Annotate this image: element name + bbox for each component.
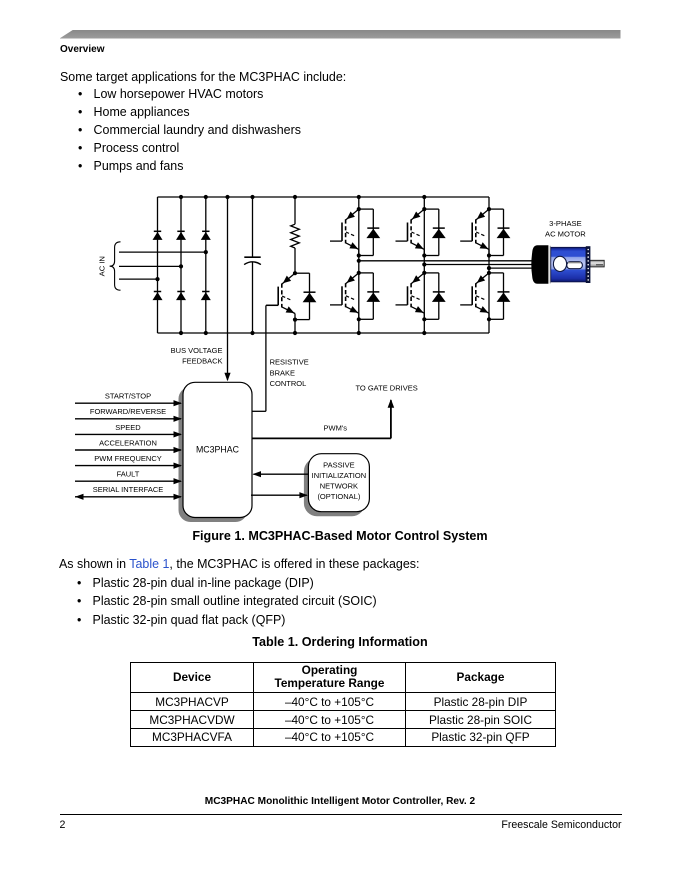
wire: ACCELERATION input (75, 438, 182, 453)
paragraph 2 (59, 557, 419, 571)
svg-text:BUS VOLTAGE: BUS VOLTAGE (171, 346, 223, 355)
node: inverter leg 2 bottom bus (422, 331, 426, 335)
wire: rectifier leg 1 (157, 197, 159, 333)
node: leg2 top bus junction (179, 195, 183, 199)
wire: brake emitter to DC- bus (294, 320, 296, 333)
transistor Q1 (high side) (330, 209, 359, 255)
svg-text:(OPTIONAL): (OPTIONAL) (317, 492, 360, 501)
svg-text:AC MOTOR: AC MOTOR (545, 229, 586, 238)
paragraph 1 (60, 70, 346, 84)
node: leg3 top bus junction (204, 195, 208, 199)
label: RESISTIVE BRAKE CONTROL (270, 358, 309, 388)
bullet list 2 (77, 574, 377, 630)
wire: PWM FREQUENCY input (75, 454, 182, 469)
wire: rectifier leg 2 (180, 197, 182, 333)
wire: FORWARD/REVERSE input (75, 407, 182, 422)
svg-text:PWM's: PWM's (324, 424, 348, 433)
wire: motor phase 2 (424, 264, 536, 266)
transistor Q6 (low side) (460, 273, 489, 319)
wire: AC phase input 1 (119, 251, 206, 253)
figure caption (0, 529, 680, 543)
bullet list 1 (78, 85, 301, 175)
capacitor C1 (DC bus) (244, 197, 261, 333)
label: 3-PHASE AC MOTOR (545, 219, 586, 238)
svg-text:RESISTIVE: RESISTIVE (270, 358, 309, 367)
svg-text:CONTROL: CONTROL (270, 379, 307, 388)
svg-text:PWM FREQUENCY: PWM FREQUENCY (94, 454, 162, 463)
label: BUS VOLTAGE FEEDBACK (171, 346, 223, 366)
node: emitter of Q2 (low side) (357, 317, 361, 321)
wire: START/STOP input (75, 392, 182, 407)
node: inverter leg 2 top bus (422, 195, 426, 199)
freewheel diode of Q4 (low side) (424, 273, 445, 319)
node: emitter of Q1 (high side) (357, 253, 361, 257)
node: emitter of Q4 (low side) (422, 317, 426, 321)
diode D2 (bridge lower) (153, 292, 163, 301)
footer title (0, 796, 680, 807)
freewheel diode of Q2 (low side) (359, 273, 380, 319)
node: capacitor bottom (250, 331, 254, 335)
top gray banner (60, 30, 621, 39)
svg-text:FEEDBACK: FEEDBACK (182, 357, 222, 366)
node: emitter of Q3 (high side) (422, 253, 426, 257)
node: resistor top on DC+ bus (293, 195, 297, 199)
wire: AC phase input 2 (119, 265, 181, 267)
svg-text:FAULT: FAULT (117, 470, 140, 479)
node: phase 1 tap (357, 259, 361, 263)
wire: passive network to MC3PHAC (253, 471, 309, 477)
3-phase AC motor M1 (531, 245, 604, 283)
node: feedback to DC+ bus (225, 195, 229, 199)
diode D6 (bridge lower) (201, 292, 211, 301)
svg-text:PASSIVE: PASSIVE (323, 461, 355, 470)
diode D5 (bridge upper) (201, 231, 211, 240)
wire: inverter leg 1 vertical (358, 197, 360, 333)
freewheel diode of Q3 (high side) (424, 209, 445, 255)
wire: DC- bottom bus (158, 332, 490, 334)
wire: motor phase 3 (489, 267, 536, 269)
node: collector of Q5 (high side) (487, 207, 491, 211)
node: AC phase 2 junction (179, 264, 183, 268)
node: phase 3 tap (487, 266, 491, 270)
wire: PWM's to gate drives (251, 399, 394, 438)
table caption (0, 635, 680, 649)
ordering table (130, 662, 556, 747)
op-amp substitute: MC3PHAC controller block (179, 382, 253, 522)
diode D4 (bridge lower) (176, 292, 186, 301)
svg-text:BRAKE: BRAKE (270, 368, 295, 377)
svg-text:ACCELERATION: ACCELERATION (99, 438, 157, 447)
wire: inverter leg 2 vertical (423, 197, 425, 333)
wire: AC phase input 3 (119, 278, 158, 280)
freewheel diode of Q5 (high side) (489, 209, 510, 255)
svg-text:SERIAL INTERFACE: SERIAL INTERFACE (93, 485, 164, 494)
wire: SPEED input (75, 423, 182, 438)
node: inverter leg 1 top bus (357, 195, 361, 199)
node: AC phase 1 junction (204, 250, 208, 254)
svg-text:SPEED: SPEED (115, 423, 141, 432)
node: emitter of Q5 (high side) (487, 253, 491, 257)
section heading (60, 44, 104, 55)
node: collector of Q4 (low side) (422, 271, 426, 275)
wire: bus voltage feedback (224, 197, 230, 381)
node: phase 2 tap (422, 262, 426, 266)
svg-text:INITIALIZATION: INITIALIZATION (312, 471, 366, 480)
node: leg2 bottom bus junction (179, 331, 183, 335)
wire: inverter leg 3 vertical (488, 197, 490, 333)
node: capacitor top (250, 195, 254, 199)
freewheel diode of Q1 (high side) (359, 209, 380, 255)
transistor Q3 (high side) (396, 209, 425, 255)
transistor Q4 (low side) (396, 273, 425, 319)
freewheel diode of Q6 (low side) (489, 273, 510, 319)
svg-text:TO GATE DRIVES: TO GATE DRIVES (355, 384, 417, 393)
page number (60, 819, 66, 831)
svg-text:START/STOP: START/STOP (105, 392, 151, 401)
transistor Q7 (brake) (266, 273, 295, 319)
node: collector of Q3 (high side) (422, 207, 426, 211)
svg-text:MC3PHAC: MC3PHAC (196, 445, 240, 455)
svg-text:FORWARD/REVERSE: FORWARD/REVERSE (90, 407, 166, 416)
wire: MC3PHAC to passive network (251, 492, 308, 498)
node: AC phase 3 junction (155, 277, 159, 281)
node: emitter of Q6 (low side) (487, 317, 491, 321)
node: brake emitter on DC- bus (293, 331, 297, 335)
wire: SERIAL INTERFACE input (75, 485, 182, 500)
svg-text:NETWORK: NETWORK (320, 482, 358, 491)
transistor Q5 (high side) (460, 209, 489, 255)
node: collector of Q7 (brake) (293, 271, 297, 275)
wire: rectifier leg 3 (205, 197, 207, 333)
resistor R1 (brake) (291, 197, 300, 273)
node: leg3 bottom bus junction (204, 331, 208, 335)
node: emitter of Q7 (brake) (293, 318, 297, 322)
wire: resistive brake control (251, 305, 278, 411)
wire: FAULT input (75, 470, 182, 485)
wire: DC+ top bus (158, 196, 490, 198)
diode D3 (bridge upper) (176, 231, 186, 240)
block: passive initialization network (304, 454, 370, 517)
wire: motor phase 1 (359, 260, 536, 262)
freewheel diode of Q7 (brake) (295, 273, 316, 319)
node: collector of Q1 (high side) (357, 207, 361, 211)
AC IN brace (110, 242, 121, 290)
node: collector of Q2 (low side) (357, 271, 361, 275)
footer right (501, 819, 621, 831)
transistor Q2 (low side) (330, 273, 359, 319)
svg-text:3-PHASE: 3-PHASE (549, 219, 582, 228)
diode D1 (bridge upper) (153, 231, 163, 240)
footer rule (60, 814, 622, 815)
node: collector of Q6 (low side) (487, 271, 491, 275)
node: inverter leg 1 bottom bus (357, 331, 361, 335)
svg-text:AC IN: AC IN (98, 256, 107, 276)
